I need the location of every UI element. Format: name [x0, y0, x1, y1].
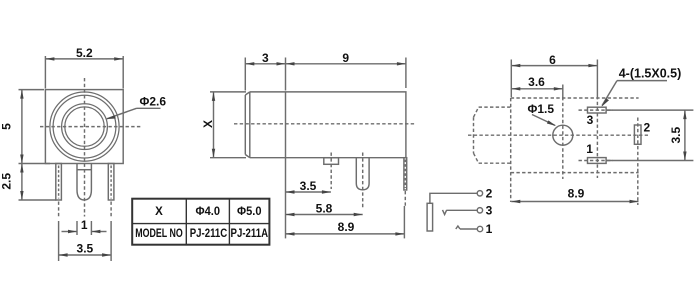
dimension 5.8 (pin position)	[286, 201, 363, 216]
svg-text:3.6: 3.6	[528, 75, 545, 89]
table row 1: X / dia4.0 / dia5.0	[155, 206, 261, 218]
left pin (front view)	[56, 164, 62, 217]
terminal 1 circle	[477, 226, 482, 231]
svg-text:5.2: 5.2	[76, 46, 93, 60]
svg-text:Φ4.0: Φ4.0	[196, 206, 221, 218]
dimension 5.2 (front width)	[45, 46, 123, 88]
svg-text:1: 1	[486, 222, 493, 236]
dimension 6 (top view width)	[511, 53, 597, 97]
dimension 3.6 (hole position)	[511, 75, 563, 97]
terminal 2 circle	[477, 191, 482, 196]
label dia 2.6 with leader	[106, 95, 166, 120]
svg-text:9: 9	[342, 51, 349, 65]
horizontal center line of top view	[468, 134, 648, 136]
svg-text:2: 2	[644, 121, 651, 135]
dimension 5 (front height)	[0, 90, 44, 164]
svg-text:3.5: 3.5	[77, 241, 94, 255]
dimension 2.5 (pin length)	[0, 164, 57, 201]
dimension 8.9 (top view overall)	[511, 186, 638, 203]
svg-text:2.5: 2.5	[0, 173, 13, 190]
front view housing square	[45, 90, 123, 164]
center hole 1.5 (top view)	[553, 125, 573, 145]
svg-text:1: 1	[586, 142, 593, 156]
jack plug symbol	[427, 203, 433, 231]
svg-text:1: 1	[81, 218, 88, 232]
center contact pin (side view, rounded)	[356, 153, 369, 210]
svg-text:8.9: 8.9	[338, 220, 355, 234]
pad 3 (top)	[579, 107, 694, 113]
top view body (hidden lines)	[511, 98, 639, 202]
rear pin (side view)	[404, 158, 407, 239]
wire to terminal 2	[430, 193, 478, 203]
svg-text:2: 2	[486, 187, 493, 201]
svg-text:3.5: 3.5	[669, 127, 683, 144]
switch contact hat and wire to terminal 1	[456, 226, 460, 229]
svg-text:X: X	[155, 206, 163, 218]
svg-text:3: 3	[587, 113, 594, 127]
vertical center line through pads 1,3	[596, 96, 598, 178]
terminal 3 circle	[477, 208, 482, 213]
svg-text:Φ5.0: Φ5.0	[237, 206, 262, 218]
center pin (front view)	[77, 164, 91, 201]
jack opening inner circle (hole 2.6)	[65, 107, 104, 146]
dimension 9 (body length)	[286, 51, 406, 88]
mounting tab (side view)	[324, 153, 339, 190]
dimension 1 (center pin width)	[62, 218, 107, 235]
pad 2 (right)	[634, 118, 641, 206]
svg-text:3: 3	[262, 51, 269, 65]
svg-text:Φ2.6: Φ2.6	[140, 95, 167, 109]
svg-text:4-(1.5X0.5): 4-(1.5X0.5)	[619, 67, 682, 81]
svg-text:5: 5	[0, 123, 13, 130]
svg-text:6: 6	[549, 53, 556, 67]
outer barrel circle	[50, 92, 119, 161]
svg-text:PJ-211A: PJ-211A	[231, 228, 269, 240]
svg-text:3: 3	[486, 204, 493, 218]
right pin (front view)	[108, 164, 114, 217]
svg-text:5.8: 5.8	[316, 201, 333, 215]
dimension 3.5 (pin spacing, front)	[59, 221, 112, 261]
vertical center line through hole	[562, 97, 564, 179]
side view center line	[234, 123, 416, 125]
barrel rim circle	[53, 95, 116, 158]
table frame	[132, 199, 269, 245]
jack opening outer circle	[62, 104, 108, 150]
svg-text:MODEL NO: MODEL NO	[135, 228, 183, 240]
pad 1 (bottom)	[579, 158, 694, 164]
switch contact v and wire to terminal 3	[443, 210, 447, 215]
svg-text:3.5: 3.5	[300, 179, 317, 193]
dimension X (body diameter)	[201, 92, 246, 158]
table row 2: MODEL NO / PJ-211C / PJ-211A	[135, 228, 268, 240]
top view barrel (hidden lines)	[474, 107, 511, 163]
svg-text:Φ1.5: Φ1.5	[528, 102, 555, 116]
svg-text:X: X	[201, 120, 215, 128]
side view body outline	[245, 92, 406, 158]
vertical center line of front view	[84, 78, 86, 217]
dimension 3.5 (tab position)	[286, 158, 331, 239]
svg-text:PJ-211C: PJ-211C	[190, 228, 228, 240]
dimension 3.5 (pad spacing, top view)	[669, 110, 687, 160]
dimension 3 (barrel length)	[245, 51, 285, 91]
dimension 8.9 (overall length)	[286, 220, 405, 236]
label 4-(1.5X0.5) with leader	[602, 67, 682, 107]
svg-text:8.9: 8.9	[568, 186, 585, 200]
label dia 1.5 with leader	[528, 102, 557, 126]
horizontal center line of front view	[40, 126, 141, 128]
